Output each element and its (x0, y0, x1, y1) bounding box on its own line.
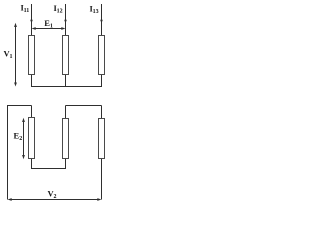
svg-text:13: 13 (93, 9, 99, 15)
svg-text:1: 1 (50, 24, 53, 30)
svg-text:2: 2 (54, 194, 57, 200)
svg-text:1: 1 (10, 54, 13, 60)
svg-text:2: 2 (19, 136, 22, 142)
svg-text:12: 12 (57, 9, 63, 15)
svg-text:11: 11 (24, 8, 30, 14)
